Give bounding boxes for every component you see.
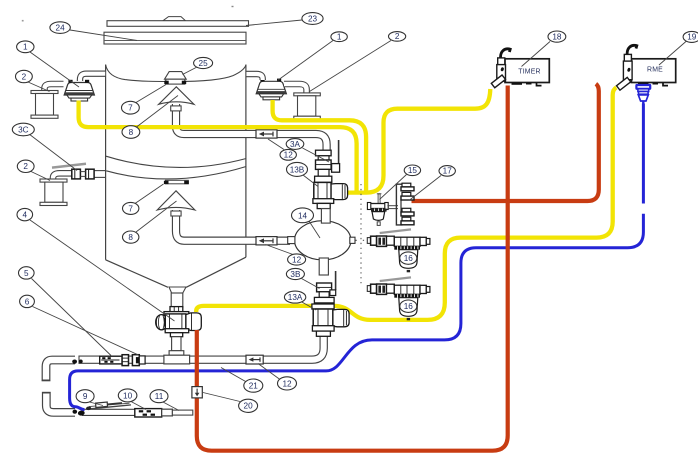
strainer assembly 16 lower — [367, 277, 430, 320]
flow indicator 20 — [192, 387, 202, 398]
dump valve 4 assembly — [156, 307, 202, 364]
yellow tube C to rme — [196, 88, 616, 320]
coupling 6 — [132, 355, 145, 366]
solenoid 15 — [367, 194, 398, 226]
balloon 13B — [287, 162, 308, 176]
balloon 3B — [286, 268, 304, 279]
inlet elbow upper-left — [42, 360, 77, 381]
svg-text:2: 2 — [22, 72, 27, 81]
svg-text:2: 2 — [395, 32, 400, 41]
balloon 11 — [150, 390, 168, 403]
air vent cylinder 2 upper-right — [284, 84, 320, 119]
check valve 12 upper — [256, 130, 277, 138]
solenoid valve 13B — [313, 182, 348, 208]
svg-text:1: 1 — [23, 43, 28, 52]
svg-text:10: 10 — [123, 391, 133, 400]
balloon 24 — [50, 22, 70, 34]
balloon 19 — [683, 31, 698, 42]
balloon 10 — [118, 389, 137, 402]
svg-text:5: 5 — [24, 269, 29, 278]
tank funnel — [106, 260, 168, 288]
svg-text:9: 9 — [83, 392, 88, 401]
blue sensor tube — [70, 214, 644, 410]
balloon 7 upper — [121, 101, 139, 114]
balloon 8 upper — [122, 126, 140, 139]
rme blue level probe — [636, 85, 650, 104]
right sprayhead supply elbow — [246, 74, 262, 80]
svg-text:RME: RME — [647, 66, 663, 73]
yellow tube A from left sprayhead — [79, 101, 357, 191]
svg-text:13B: 13B — [290, 165, 305, 174]
lower cone pipe to chamber — [171, 209, 290, 241]
rme box 19 — [631, 59, 675, 86]
dotted reference line vertical — [360, 184, 362, 286]
balloon 6 — [20, 295, 35, 307]
svg-text:8: 8 — [128, 233, 133, 242]
solenoid valve 13A — [312, 304, 349, 336]
balloon 17 — [439, 166, 455, 177]
lid bar 23 — [107, 17, 249, 27]
red tube from valve 4 to timer — [197, 86, 508, 451]
balloon 9 — [76, 390, 94, 403]
balloon 3A — [286, 139, 304, 150]
svg-text:7: 7 — [128, 104, 133, 113]
air vent cylinder 2 upper-left — [31, 84, 64, 118]
balloon 15 — [404, 165, 420, 176]
balloon 2 right — [389, 32, 406, 42]
level probe 9 — [86, 402, 131, 410]
svg-text:13A: 13A — [288, 293, 303, 302]
distribution manifold 17 — [396, 183, 414, 225]
svg-text:12: 12 — [284, 151, 294, 160]
tank top water line — [106, 65, 246, 82]
balloon 2 lower-left — [17, 160, 34, 172]
svg-text:7: 7 — [128, 204, 133, 213]
rme inlet fitting — [617, 45, 637, 90]
svg-text:18: 18 — [552, 32, 562, 41]
svg-text:11: 11 — [155, 392, 164, 401]
balloon 1 right — [331, 32, 347, 42]
balloon 12 middle — [288, 254, 306, 265]
compression fittings 3A — [315, 150, 332, 182]
red tube from manifold 17 to rme — [412, 84, 599, 201]
upper deflector cone 8 — [159, 87, 194, 105]
mixing chamber 14 — [288, 209, 355, 275]
svg-text:12: 12 — [292, 255, 302, 264]
blue tube upper segment to probe — [642, 104, 645, 204]
lower outlet pipe — [82, 409, 173, 416]
air vent cylinder 2 lower-left — [40, 179, 67, 206]
svg-text:15: 15 — [408, 166, 418, 175]
svg-text:20: 20 — [244, 402, 254, 411]
balloon 8 lower — [123, 231, 139, 243]
balloon 5 — [19, 267, 35, 279]
check valve 12 bottom — [246, 355, 263, 364]
fitting 10 — [135, 409, 162, 417]
balloon 13A — [284, 291, 305, 303]
balloon 14 — [292, 208, 314, 223]
balloon 25 — [194, 57, 213, 68]
svg-text:4: 4 — [23, 211, 28, 220]
funnel spout — [169, 287, 186, 293]
upper cone pipe to check valve — [171, 103, 327, 153]
svg-text:23: 23 — [308, 14, 318, 23]
compression fittings 3B — [314, 283, 334, 303]
balloon 23 — [302, 13, 323, 25]
dotted reference line horizontal — [356, 239, 368, 241]
svg-text:24: 24 — [56, 23, 66, 32]
balloon 2 upper-left — [16, 70, 33, 82]
inlet elbow lower-left — [42, 392, 77, 413]
balloon 4 — [17, 208, 33, 220]
tank right wall — [245, 65, 247, 258]
balloon 12 upper — [280, 149, 296, 160]
lower deflector cone 8 — [157, 191, 195, 210]
vent 25 — [164, 72, 186, 85]
balloon 16 lower — [400, 300, 417, 312]
svg-text:TIMER: TIMER — [518, 68, 540, 75]
svg-text:19: 19 — [687, 33, 697, 42]
upper manifold pipe — [79, 333, 324, 364]
vent fitting 3C — [52, 164, 106, 180]
check valve 12 middle — [256, 237, 277, 245]
balloon 7 lower — [123, 202, 139, 214]
mid tank port plate (7 target) — [164, 180, 189, 184]
nozzle 11 — [162, 409, 193, 416]
svg-text:2: 2 — [23, 162, 28, 171]
valve stem rod upper — [332, 140, 340, 172]
timer inlet fitting — [491, 49, 510, 88]
speck marks — [22, 20, 24, 22]
svg-text:3C: 3C — [18, 125, 29, 134]
pipe end dot — [79, 360, 83, 364]
svg-text:16: 16 — [404, 254, 414, 263]
balloon 20 — [239, 399, 258, 412]
svg-text:8: 8 — [129, 128, 134, 137]
tank left wall — [105, 65, 107, 260]
balloon 16 upper — [400, 252, 417, 264]
svg-text:14: 14 — [298, 211, 308, 220]
balloon 3C — [12, 123, 34, 136]
yellow tube D to timer — [347, 89, 490, 193]
sprayhead 1 left — [64, 80, 94, 101]
balloon 12 bottom — [278, 377, 297, 390]
tank mid double arc — [106, 156, 246, 167]
timer box 18 — [505, 59, 549, 86]
svg-text:6: 6 — [25, 297, 30, 306]
svg-text:16: 16 — [404, 302, 414, 311]
strainer assembly 16 upper — [367, 229, 430, 272]
svg-text:1: 1 — [337, 33, 342, 42]
balloon 1 left — [17, 41, 34, 53]
svg-text:25: 25 — [199, 59, 209, 68]
sprayhead 1 right — [256, 79, 286, 100]
drip tray 24 — [104, 32, 246, 44]
valve stem rod lower — [330, 271, 336, 296]
balloon 18 — [548, 31, 566, 42]
svg-text:12: 12 — [282, 379, 292, 388]
svg-text:3B: 3B — [290, 270, 301, 279]
leader lines — [28, 20, 687, 411]
pipe inlet blob — [78, 410, 85, 416]
svg-text:21: 21 — [249, 382, 259, 391]
left sprayhead supply elbow — [80, 74, 105, 81]
balloon 21 — [244, 379, 263, 392]
svg-text:3A: 3A — [290, 140, 301, 149]
union block 5 — [100, 355, 129, 366]
svg-text:17: 17 — [443, 167, 453, 176]
yellow tube B from right sprayhead — [273, 100, 367, 191]
